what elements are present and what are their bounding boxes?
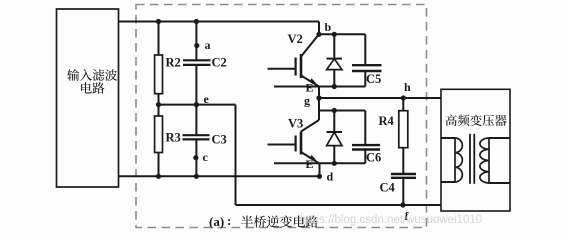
wire: f bus to transformer xyxy=(236,204,442,206)
svg-text:d: d xyxy=(327,170,334,184)
svg-text:e: e xyxy=(204,92,210,106)
input filter block (输入滤波电路) xyxy=(57,9,119,187)
node d xyxy=(317,174,322,179)
svg-text:a: a xyxy=(205,38,211,52)
junction: R3 bottom xyxy=(156,174,161,179)
label E (V2 emitter) xyxy=(306,81,314,95)
svg-text:V3: V3 xyxy=(288,117,303,131)
junction: diode VD3 bottom xyxy=(332,161,337,166)
svg-text::: : xyxy=(227,213,231,228)
IGBT V2 xyxy=(268,34,320,86)
svg-text:C6: C6 xyxy=(366,151,381,165)
label c xyxy=(203,150,209,164)
node f xyxy=(400,202,405,207)
label e xyxy=(204,92,210,106)
capacitor C5 xyxy=(352,34,382,86)
label E (V3 emitter) xyxy=(306,157,314,171)
label R2 xyxy=(166,56,181,70)
label g xyxy=(304,94,310,108)
label a xyxy=(205,38,211,52)
label C5 xyxy=(366,72,381,86)
label d xyxy=(327,170,334,184)
label R4 xyxy=(379,114,395,128)
node c xyxy=(193,155,198,160)
wire: V3 emitter line xyxy=(274,162,365,164)
label R3 xyxy=(166,131,181,145)
label C2 xyxy=(212,56,227,70)
svg-text:(a): (a) xyxy=(209,214,224,229)
label f xyxy=(405,209,410,223)
wire: b-line to snubber branches xyxy=(319,33,365,35)
junction: diode VD2 bottom xyxy=(332,84,337,89)
HF transformer block (高频变压器) xyxy=(441,89,510,211)
svg-text:R4: R4 xyxy=(379,114,395,128)
wire: e to transformer return (vertical) xyxy=(235,105,237,205)
capacitor C6 xyxy=(352,111,380,164)
label C3 xyxy=(212,133,227,147)
node b junction (diode branch) xyxy=(332,32,337,37)
wire: V3 emitter junction down to d xyxy=(319,163,321,176)
label V3 xyxy=(288,117,303,131)
transformer T1 core xyxy=(470,134,474,184)
label C6 xyxy=(366,151,381,165)
svg-text:https://blog.csdn.net/wusuowei: https://blog.csdn.net/wusuowei1010 xyxy=(300,214,482,226)
junction: R2 top xyxy=(156,19,161,24)
diode VD2 (across V2) xyxy=(327,34,343,86)
svg-text:V2: V2 xyxy=(288,32,303,46)
node a xyxy=(194,43,199,48)
junction: C3 bottom xyxy=(194,174,199,179)
svg-text:C5: C5 xyxy=(366,72,381,86)
junction: C2 top xyxy=(194,19,199,24)
wire: top bus drop to node b xyxy=(318,22,320,35)
capacitor C4 xyxy=(391,174,416,205)
wire: bottom negative bus xyxy=(119,175,321,177)
svg-text:C4: C4 xyxy=(380,181,396,195)
caption (a)：半桥逆变电路 xyxy=(209,213,318,229)
IGBT V3 xyxy=(268,120,320,163)
label V2 xyxy=(288,32,303,46)
wire: V2 emitter line xyxy=(274,86,365,88)
junction: R2 bottom xyxy=(156,102,161,107)
junction: top bus / V2 collector xyxy=(316,32,321,37)
junction: diode VD3 top xyxy=(332,108,337,113)
wire: g line to V3 branches xyxy=(319,110,365,112)
resistor R4 xyxy=(399,98,408,174)
svg-text:C2: C2 xyxy=(212,56,227,70)
node e xyxy=(194,102,199,107)
label C4 xyxy=(380,181,396,195)
wire: emitter junction down to g xyxy=(318,87,320,121)
label b xyxy=(325,20,332,34)
svg-text:b: b xyxy=(325,20,332,34)
resistor R3 xyxy=(155,105,163,177)
diode VD3 (across V3) xyxy=(327,111,343,164)
transformer T1 primary winding xyxy=(441,138,462,182)
svg-text:g: g xyxy=(304,94,310,108)
wire: g-h midpoint bus xyxy=(319,97,441,99)
svg-text:R2: R2 xyxy=(166,56,181,70)
capacitor C3 xyxy=(183,105,210,177)
transformer T1 secondary winding xyxy=(480,138,510,183)
label h xyxy=(404,80,411,94)
node g xyxy=(316,95,321,100)
svg-text:c: c xyxy=(203,150,209,164)
wire: middle e bus xyxy=(159,104,236,106)
dashed enclosure: half-bridge inverter xyxy=(136,5,427,228)
svg-text:h: h xyxy=(404,80,411,94)
svg-text:R3: R3 xyxy=(166,131,181,145)
wire: top positive bus xyxy=(119,21,320,23)
node h xyxy=(401,95,406,100)
watermark xyxy=(300,214,482,226)
svg-text:C3: C3 xyxy=(212,133,227,147)
resistor R2 xyxy=(155,22,163,105)
capacitor C2 xyxy=(183,22,211,105)
